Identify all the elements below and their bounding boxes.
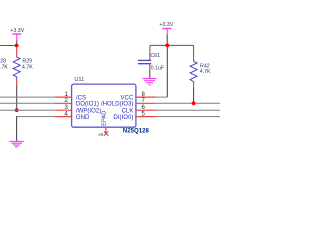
epad pin stub bbox=[105, 127, 107, 134]
pin 7 stub bbox=[136, 102, 156, 104]
svg-text:C61: C61 bbox=[150, 53, 160, 59]
junction dot (right rail) bbox=[165, 44, 169, 48]
svg-text:DI(IO0): DI(IO0) bbox=[113, 114, 133, 121]
epad no-connect X bbox=[104, 131, 108, 135]
wire DO(IO1) net bbox=[0, 102, 55, 104]
pin 1 stub bbox=[55, 96, 72, 98]
wire DI net (right) bbox=[156, 116, 220, 118]
power symbol +3.3V (right) bbox=[162, 29, 171, 35]
junction dot (left rail) bbox=[15, 44, 19, 48]
pin 2 stub bbox=[55, 102, 72, 104]
wire +3.3V rail (left) bbox=[0, 45, 17, 47]
wire rail corner to R42 bbox=[193, 45, 195, 57]
resistor R42 bbox=[190, 58, 211, 88]
wire /HOLD net (right) bbox=[156, 102, 220, 104]
capacitor C61 bbox=[138, 52, 165, 71]
svg-text:N25Q128: N25Q128 bbox=[123, 128, 150, 135]
wire power stem (right) bbox=[166, 35, 168, 46]
wire rail corner to C61 bbox=[149, 45, 151, 52]
wire VCC riser bbox=[166, 45, 168, 97]
wire GND net bbox=[17, 116, 55, 118]
pin 3 stub bbox=[55, 109, 72, 111]
IC U11 body bbox=[72, 84, 136, 127]
power symbol +3.3V (left) bbox=[12, 34, 21, 40]
pin 6 stub bbox=[136, 109, 156, 111]
svg-text:+3.3V: +3.3V bbox=[159, 22, 173, 28]
junction dot (/HOLD net) bbox=[192, 101, 196, 105]
svg-text:GND: GND bbox=[76, 114, 90, 121]
svg-text:4.7K: 4.7K bbox=[22, 64, 33, 70]
svg-text:U11: U11 bbox=[74, 77, 84, 83]
svg-text:4.7K: 4.7K bbox=[0, 64, 8, 70]
wire C61 to ground bbox=[149, 70, 151, 78]
wire R29 bottom to /WP net bbox=[16, 85, 18, 110]
wire R42 bottom to /HOLD net bbox=[193, 88, 195, 104]
wire VCC to rail bbox=[156, 96, 168, 98]
svg-text:0.1uF: 0.1uF bbox=[151, 66, 165, 72]
svg-text:4.7K: 4.7K bbox=[200, 69, 211, 75]
resistor R29 bbox=[13, 47, 33, 85]
pin 4 stub bbox=[55, 116, 72, 118]
ground (left) bbox=[10, 141, 24, 146]
svg-text:EPAD: EPAD bbox=[102, 111, 108, 126]
wire GND drop bbox=[16, 116, 18, 141]
wire power stem (left) bbox=[16, 41, 18, 46]
wire CLK net (right) bbox=[156, 109, 220, 111]
wire /WP(IO2) net bbox=[0, 109, 55, 111]
pin 8 stub bbox=[136, 96, 156, 98]
svg-text:e9: e9 bbox=[98, 132, 104, 137]
wire +3.3V rail (right) bbox=[150, 44, 194, 46]
svg-text:+3.3V: +3.3V bbox=[10, 28, 24, 34]
junction dot (/WP net) bbox=[15, 108, 19, 112]
wire /CS net bbox=[0, 96, 55, 98]
ground (under C61) bbox=[142, 79, 156, 85]
pin 5 stub bbox=[136, 116, 156, 118]
